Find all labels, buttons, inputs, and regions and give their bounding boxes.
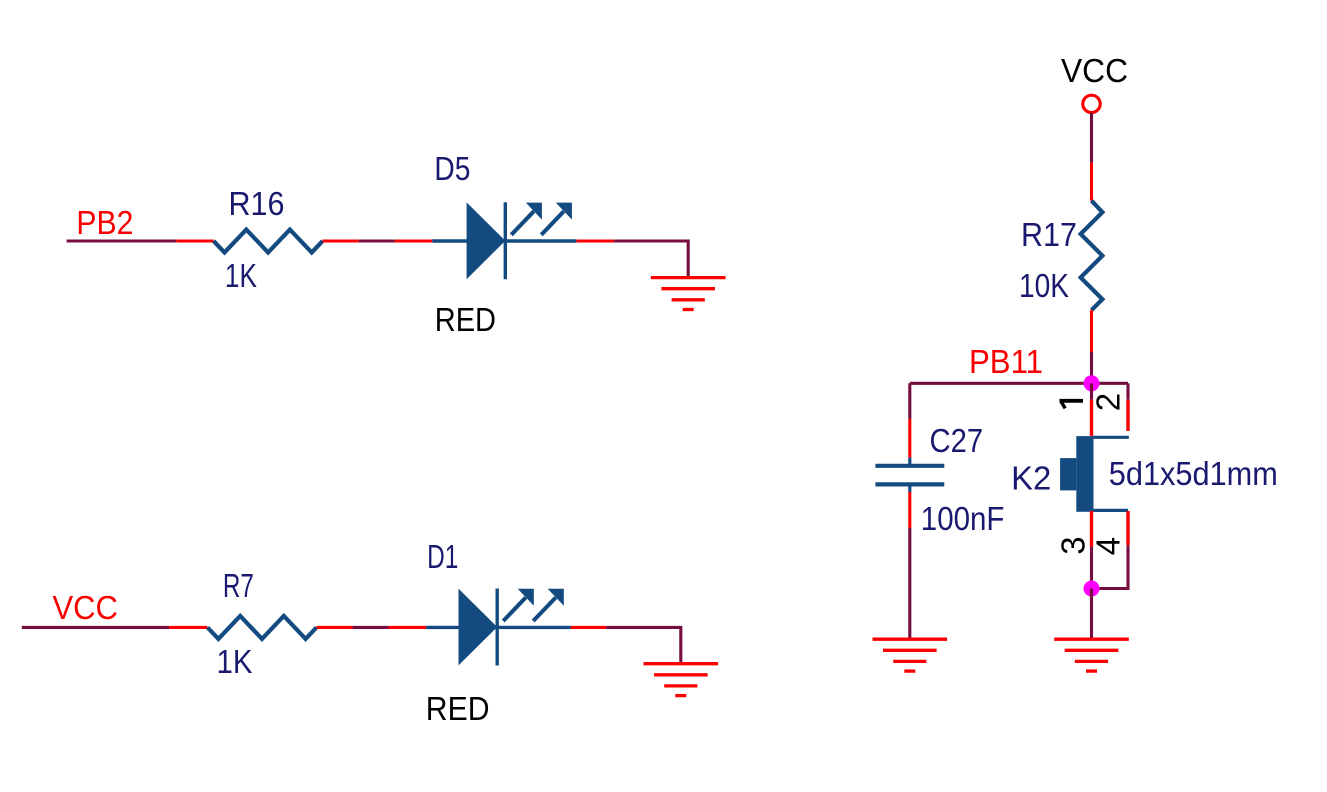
svg-text:D1: D1 (427, 538, 458, 575)
junction below K2 (1084, 581, 1100, 597)
svg-text:VCC: VCC (1061, 52, 1128, 89)
svg-text:4: 4 (1090, 537, 1127, 555)
svg-text:R17: R17 (1021, 216, 1077, 253)
C27 label (930, 422, 984, 459)
wire R7 to D1 (317, 626, 571, 629)
R16 label (229, 185, 285, 222)
svg-text:D5: D5 (434, 150, 470, 187)
D1 label (427, 538, 458, 575)
net label VCC (left) (53, 589, 118, 626)
power symbol VCC circle (1083, 95, 1100, 112)
svg-text:C27: C27 (930, 422, 984, 459)
D5 label (434, 150, 470, 187)
pushbutton K2 body (1060, 436, 1129, 512)
wire PB11 to C27 (908, 383, 911, 457)
wire R17 to node PB11 (1090, 310, 1093, 383)
ground for K2 (1054, 639, 1129, 671)
LED D5 (467, 202, 572, 279)
wire K2 pin 3 to node (1090, 511, 1093, 589)
capacitor C27 (875, 458, 944, 492)
wire VCC to R7 (22, 626, 208, 629)
K2 pin number 3 (1055, 536, 1092, 554)
wire PB11 to K2 pin 2 (1126, 383, 1129, 431)
svg-text:RED: RED (426, 690, 490, 727)
wire PB11 to K2 pin 1 (1090, 383, 1093, 436)
svg-text:RED: RED (435, 301, 496, 338)
svg-text:K2: K2 (1011, 459, 1051, 496)
ground for D5 (651, 278, 726, 310)
wire PB2 to R16 (67, 239, 214, 242)
resistor R17 zigzag (1081, 201, 1103, 310)
wire C27 to ground (908, 492, 911, 638)
K2 pin number 1 (1060, 401, 1084, 409)
R17 label (1021, 216, 1077, 253)
resistor R16 zigzag (214, 230, 323, 253)
net label PB11 (969, 343, 1043, 380)
svg-text:1K: 1K (217, 643, 253, 680)
resistor R7 zigzag (208, 616, 317, 639)
net label PB2 (76, 204, 133, 241)
svg-text:PB2: PB2 (76, 204, 133, 241)
D1 value RED (426, 690, 490, 727)
junction node PB11 (1084, 375, 1100, 391)
power symbol VCC label (1061, 52, 1128, 89)
wire R16 to D5 (323, 239, 577, 242)
svg-text:VCC: VCC (53, 589, 118, 626)
LED D1 (459, 589, 564, 666)
K2 pin number 4 (1090, 537, 1127, 555)
wire K2 pin 4 to node (1092, 511, 1129, 589)
svg-text:R16: R16 (229, 185, 285, 222)
wire D1 to ground (571, 627, 681, 663)
C27 value 100nF (921, 500, 1005, 537)
svg-text:100nF: 100nF (921, 500, 1005, 537)
K2 pin number 2 (1090, 393, 1127, 411)
svg-text:5d1x5d1mm: 5d1x5d1mm (1109, 455, 1278, 492)
svg-text:10K: 10K (1019, 267, 1069, 304)
R16 value 1K (225, 257, 257, 294)
K2 label (1011, 459, 1051, 496)
ground for C27 (873, 639, 948, 671)
D5 value RED (435, 301, 496, 338)
svg-text:PB11: PB11 (969, 343, 1043, 380)
R17 value 10K (1019, 267, 1069, 304)
K2 value 5d1x5d1mm (1109, 455, 1278, 492)
svg-text:2: 2 (1090, 393, 1127, 411)
svg-text:R7: R7 (223, 567, 254, 604)
wire node PB11 horizontal (910, 382, 1128, 385)
wire D5 to ground (576, 241, 688, 278)
wire K2 node to ground (1090, 589, 1093, 639)
wire VCC to R17 (1090, 113, 1093, 201)
ground for D1 (644, 664, 719, 696)
svg-text:1K: 1K (225, 257, 257, 294)
R7 value 1K (217, 643, 253, 680)
svg-text:3: 3 (1055, 536, 1092, 554)
R7 label (223, 567, 254, 604)
